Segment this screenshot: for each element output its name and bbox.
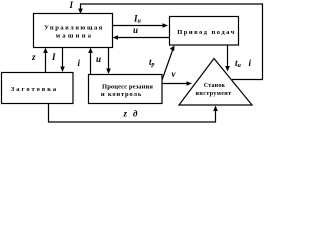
box U3 workpiece <box>2 73 74 104</box>
wire i up <box>90 51 92 74</box>
arrow up i <box>88 48 93 54</box>
arrow into triangle bottom <box>213 106 218 112</box>
wire U4 to triangle <box>163 83 189 85</box>
arrow down into U3 <box>60 67 65 73</box>
wire U1 to U2 <box>113 25 164 27</box>
triangle tool <box>179 59 252 106</box>
svg-text:z: z <box>31 52 36 62</box>
arrow down into U4 <box>106 69 111 75</box>
wire feedback bottom <box>49 104 216 123</box>
svg-text:Управляющая: Управляющая <box>44 25 104 32</box>
svg-text:машина: машина <box>56 33 94 40</box>
arrow up z <box>43 48 48 54</box>
arrow into U1 top <box>78 9 83 15</box>
arrow into U2 left <box>163 23 169 28</box>
wire U2 to U1 <box>116 37 170 39</box>
svg-text:инструмент: инструмент <box>196 91 232 97</box>
wire U2 to triangle <box>227 45 229 68</box>
arrow into triangle right slope <box>225 66 230 72</box>
wire z up <box>45 51 47 72</box>
box U2 drive unit <box>170 17 239 46</box>
svg-text:z: z <box>123 109 128 119</box>
svg-text:Заготовка: Заготовка <box>11 86 58 93</box>
box U4 cutting process <box>89 75 163 104</box>
wire diagonal U4 to U2 <box>162 49 173 80</box>
arrow into U1 right <box>113 35 119 40</box>
arrow diagonal tip <box>170 46 175 52</box>
svg-text:Станок: Станок <box>204 83 226 89</box>
svg-text:и контроль: и контроль <box>101 91 142 98</box>
svg-text:д: д <box>133 109 138 119</box>
svg-text:I: I <box>69 0 74 10</box>
arrow into triangle left <box>187 81 193 86</box>
wire down into U4 <box>108 48 110 71</box>
svg-text:и: и <box>133 25 138 35</box>
svg-text:I: I <box>51 52 56 62</box>
box U1 control machine <box>34 14 113 48</box>
wire down into U3 <box>62 48 64 69</box>
svg-text:Процесс резания: Процесс резания <box>102 84 153 91</box>
svg-text:и: и <box>96 54 101 64</box>
wire feedback top <box>81 4 263 80</box>
svg-text:Привод подач: Привод подач <box>177 29 236 36</box>
